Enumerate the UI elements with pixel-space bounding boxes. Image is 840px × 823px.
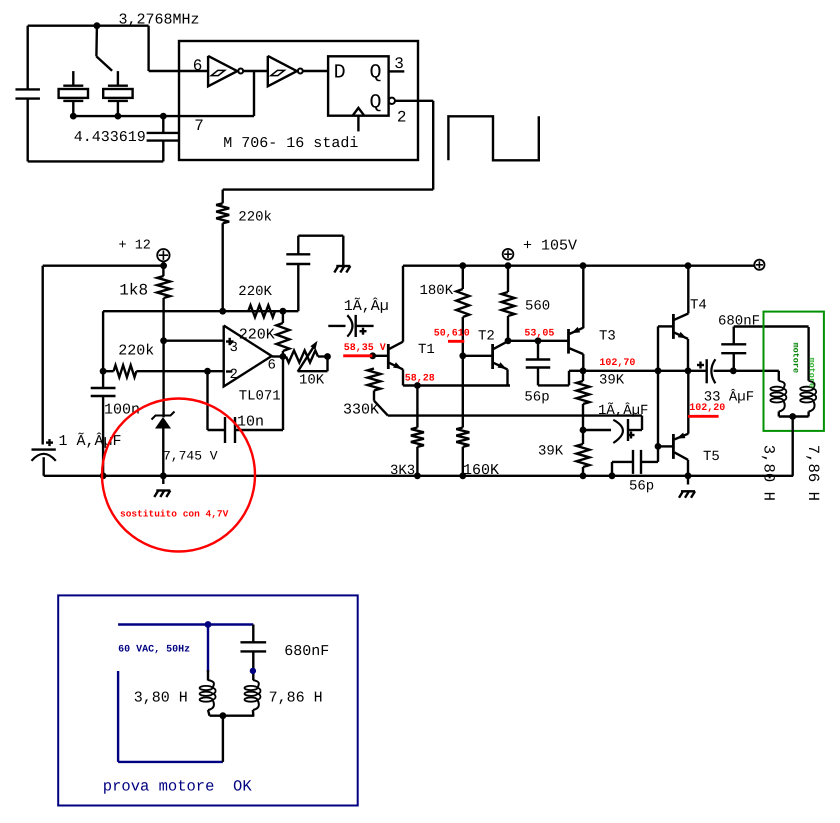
svg-text:10K: 10K xyxy=(299,373,325,389)
svg-text:+ 105V: + 105V xyxy=(523,238,577,255)
svg-text:4.433619: 4.433619 xyxy=(74,129,146,146)
svg-text:330K: 330K xyxy=(343,402,379,419)
svg-text:680nF: 680nF xyxy=(284,643,329,660)
svg-text:220k: 220k xyxy=(238,210,272,226)
svg-text:39K: 39K xyxy=(599,373,625,389)
svg-text:7: 7 xyxy=(194,117,204,135)
svg-text:58,35 V: 58,35 V xyxy=(344,343,386,354)
svg-text:2: 2 xyxy=(230,367,238,383)
svg-text:7,86 H: 7,86 H xyxy=(804,445,822,501)
svg-text:motore: motore xyxy=(806,358,816,389)
svg-text:3,2768MHz: 3,2768MHz xyxy=(119,12,200,29)
svg-text:50,610: 50,610 xyxy=(434,329,470,340)
svg-text:Q: Q xyxy=(370,91,382,114)
svg-text:3: 3 xyxy=(230,340,238,356)
svg-text:T3: T3 xyxy=(599,329,616,345)
svg-text:3,80 H: 3,80 H xyxy=(134,689,188,706)
svg-text:2: 2 xyxy=(397,108,407,126)
svg-text:58,28: 58,28 xyxy=(405,373,435,384)
svg-text:3,80 H: 3,80 H xyxy=(760,445,778,501)
svg-text:3K3: 3K3 xyxy=(390,463,415,479)
svg-text:Q: Q xyxy=(370,62,382,85)
svg-text:3: 3 xyxy=(394,55,404,73)
svg-text:+ 12: + 12 xyxy=(119,239,151,254)
svg-text:160K: 160K xyxy=(463,462,499,479)
svg-text:7,86 H: 7,86 H xyxy=(269,689,323,706)
svg-text:T1: T1 xyxy=(418,342,435,358)
svg-text:1Ã,ÂµF: 1Ã,ÂµF xyxy=(598,402,648,419)
svg-text:D: D xyxy=(334,62,346,85)
svg-text:T4: T4 xyxy=(690,298,707,314)
svg-text:56p: 56p xyxy=(629,479,654,495)
svg-text:180K: 180K xyxy=(420,283,454,299)
svg-text:T2: T2 xyxy=(478,329,495,345)
svg-text:sostituito con 4,7V: sostituito con 4,7V xyxy=(120,509,229,520)
svg-text:560: 560 xyxy=(525,299,550,315)
svg-text:102,70: 102,70 xyxy=(599,358,635,369)
svg-text:102,20: 102,20 xyxy=(689,403,725,414)
svg-text:6: 6 xyxy=(268,358,276,374)
svg-text:53,05: 53,05 xyxy=(524,329,554,340)
svg-text:7,745 V: 7,745 V xyxy=(163,449,218,464)
svg-text:220K: 220K xyxy=(238,284,272,300)
svg-text:1Ã,Âµ: 1Ã,Âµ xyxy=(344,297,389,315)
svg-text:6: 6 xyxy=(193,57,203,75)
svg-text:TL071: TL071 xyxy=(239,388,281,404)
svg-text:680nF: 680nF xyxy=(718,314,760,330)
svg-text:T5: T5 xyxy=(703,449,720,465)
svg-text:56p: 56p xyxy=(524,390,549,406)
svg-text:220K: 220K xyxy=(239,327,275,344)
svg-text:60 VAC, 50Hz: 60 VAC, 50Hz xyxy=(118,644,190,655)
svg-text:220k: 220k xyxy=(118,343,154,360)
svg-text:M 706- 16 stadi: M 706- 16 stadi xyxy=(223,135,358,152)
svg-text:motore: motore xyxy=(791,343,801,374)
svg-text:1 Ã,ÂµF: 1 Ã,ÂµF xyxy=(59,432,122,450)
svg-text:prova motore OK: prova motore OK xyxy=(103,778,253,796)
svg-text:1k8: 1k8 xyxy=(119,281,148,299)
svg-text:39K: 39K xyxy=(538,444,564,460)
svg-text:10n: 10n xyxy=(237,414,264,431)
svg-text:100n: 100n xyxy=(104,402,140,419)
